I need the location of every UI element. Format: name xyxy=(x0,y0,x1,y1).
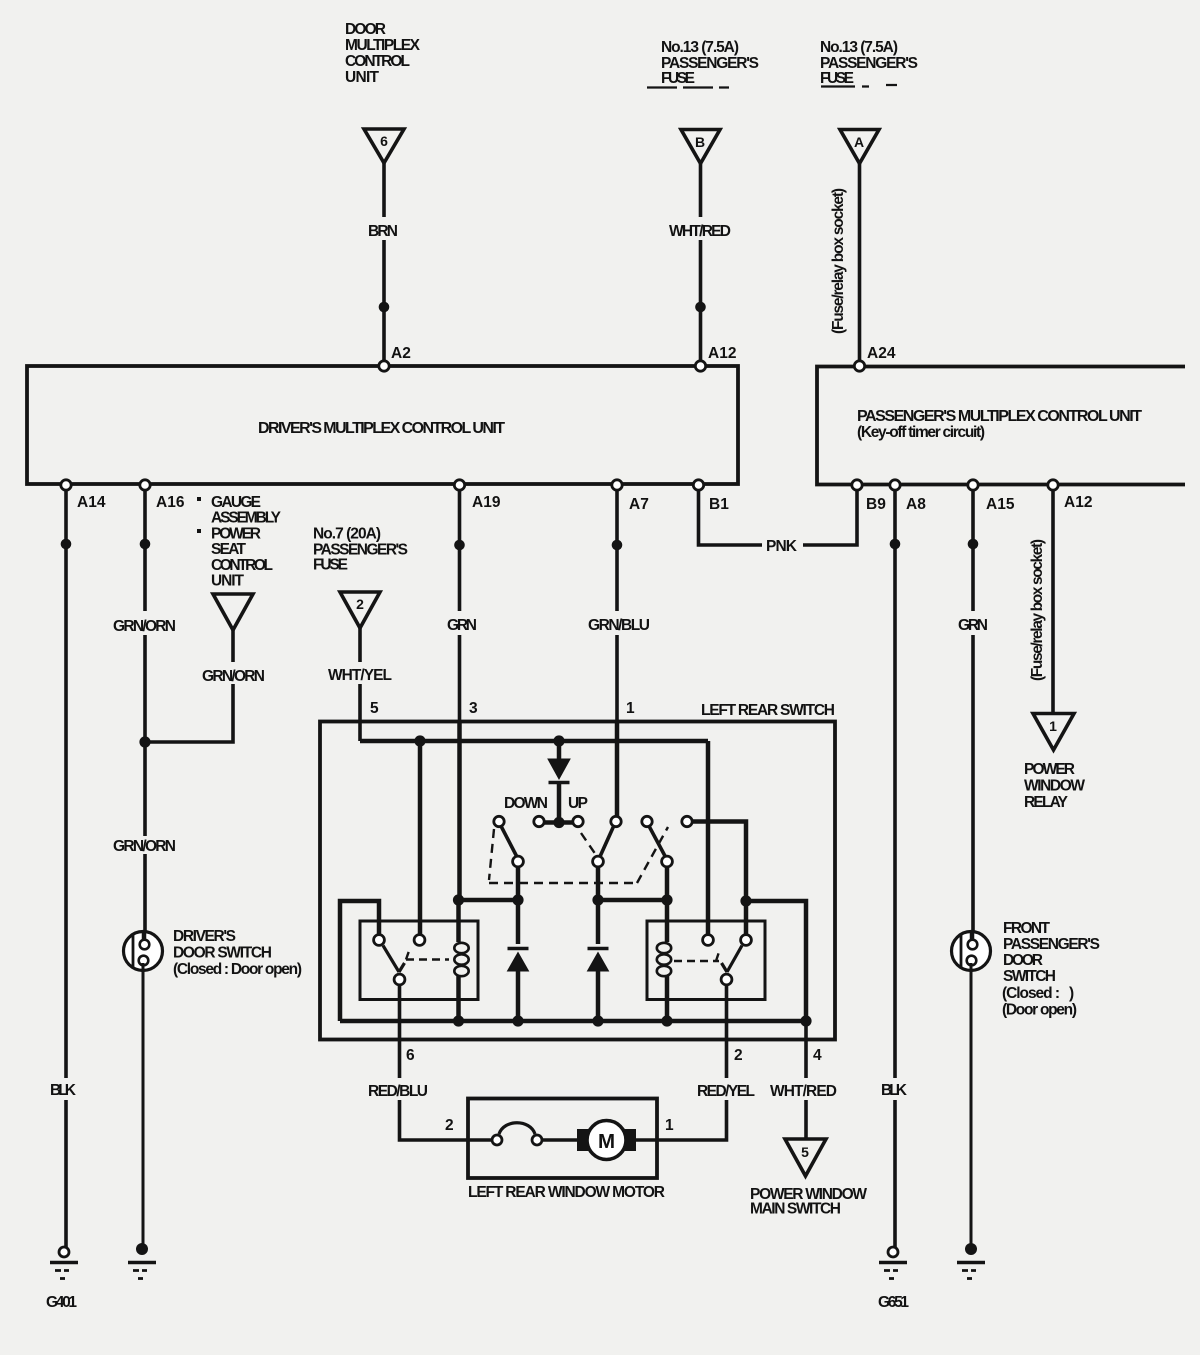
pin A15 xyxy=(968,480,978,490)
svg-text:BRN: BRN xyxy=(368,223,398,240)
label: No.7 (20A) PASSENGER'S FUSE xyxy=(313,526,408,574)
svg-text:PASSENGER'S MULTIPLEX CONTROL: PASSENGER'S MULTIPLEX CONTROL UNIT xyxy=(857,408,1142,425)
wire motor to box edge xyxy=(636,1138,657,1142)
connector triangle A (No.13 fuse) xyxy=(840,130,879,164)
wire pivot middle to mid-bus xyxy=(596,867,601,900)
svg-text:CONTROL: CONTROL xyxy=(211,557,273,574)
connector triangle 2 (No.7 fuse) xyxy=(340,592,380,628)
relay K2 pivot xyxy=(721,974,732,985)
top bus inside switch xyxy=(360,739,708,744)
svg-text:GAUGE: GAUGE xyxy=(211,494,261,511)
svg-text:CONTROL: CONTROL xyxy=(345,53,410,70)
wire pivot left to mid-bus xyxy=(516,867,521,900)
svg-text:1: 1 xyxy=(665,1117,674,1134)
svg-text:2: 2 xyxy=(734,1047,743,1064)
svg-text:GRN/ORN: GRN/ORN xyxy=(113,838,176,855)
wire GRN continues inside box to mid-bus xyxy=(457,723,462,900)
svg-text:M: M xyxy=(598,1130,615,1153)
switch arm middle xyxy=(600,827,614,857)
pin A14 xyxy=(61,480,71,490)
relay K2 box (right) xyxy=(647,921,765,1000)
svg-text:A8: A8 xyxy=(906,496,926,513)
wire pin 4 to power window main switch xyxy=(804,1021,808,1078)
label POWER WINDOW MAIN SWITCH xyxy=(750,1186,867,1218)
relay K1 link dashed xyxy=(406,951,449,960)
wire left relay feed L-path xyxy=(340,901,379,1021)
motor M1 xyxy=(577,1129,590,1151)
switch arm right xyxy=(650,827,666,856)
relay K1 contact circles xyxy=(374,935,385,946)
connector triangle B (No.13 fuse) xyxy=(681,130,720,164)
label: DOOR MULTIPLEX CONTROL UNIT xyxy=(345,21,421,86)
label DRIVER'S DOOR SWITCH xyxy=(173,928,302,978)
bottom bus inside switch xyxy=(340,1019,806,1024)
svg-text:No.7 (20A): No.7 (20A) xyxy=(313,526,381,543)
wire from top bus down to right relay contact xyxy=(706,741,711,935)
relay K2 contact circles xyxy=(703,935,714,946)
svg-text:A14: A14 xyxy=(77,494,106,511)
switch arm left xyxy=(502,827,517,856)
svg-text:A12: A12 xyxy=(1064,494,1092,511)
connector triangle 5 (power window main switch) xyxy=(785,1139,826,1176)
connector triangle 6 (door multiplex control unit) xyxy=(364,129,404,163)
svg-text:(Door open): (Door open) xyxy=(1002,1002,1077,1019)
motor circuit breaker xyxy=(468,1138,492,1142)
wire GRN/ORN from A16 to driver's door switch xyxy=(143,490,147,611)
junction on WHT/RED wire xyxy=(695,302,706,313)
junction on BRN wire xyxy=(379,302,390,313)
relay K2 coil xyxy=(665,900,670,942)
relay K1 coil xyxy=(456,900,461,942)
relay K2 arm xyxy=(722,946,743,973)
svg-text:G401: G401 xyxy=(46,1294,77,1311)
wire WHT/YEL to left rear switch pin 5 xyxy=(358,628,362,662)
label: No.13 (7.5A) PASSENGER'S FUSE (right) xyxy=(820,39,918,87)
svg-text:A24: A24 xyxy=(867,345,896,362)
junctions on mid buses xyxy=(453,894,464,905)
svg-text:DOOR: DOOR xyxy=(345,21,386,38)
wire GRN/ORN branch to A16 wire xyxy=(231,630,235,662)
svg-text:RED/YEL: RED/YEL xyxy=(697,1083,755,1100)
junction on A16 wire xyxy=(140,539,151,550)
ground G651 xyxy=(888,1247,898,1257)
wire BLK from A8 to G651 xyxy=(893,490,897,1078)
pivot circle left xyxy=(513,856,524,867)
svg-text:GRN: GRN xyxy=(958,617,988,634)
svg-text:B: B xyxy=(695,134,705,150)
mid bus right segment xyxy=(598,898,668,903)
svg-text:MAIN SWITCH: MAIN SWITCH xyxy=(750,1201,841,1218)
rocker linkage (dashed) xyxy=(489,827,668,883)
junction on A14 wire xyxy=(61,539,72,550)
svg-text:GRN/ORN: GRN/ORN xyxy=(202,668,265,685)
svg-text:UNIT: UNIT xyxy=(345,69,380,86)
front passenger's door switch xyxy=(952,932,991,971)
svg-text:FUSE: FUSE xyxy=(820,70,854,87)
svg-text:DOWN: DOWN xyxy=(504,795,548,812)
label: No.13 (7.5A) PASSENGER'S FUSE (left) xyxy=(661,39,759,87)
svg-text:UP: UP xyxy=(568,795,588,812)
svg-text:RELAY: RELAY xyxy=(1024,794,1069,811)
svg-text:A15: A15 xyxy=(986,496,1015,513)
junction on A19 wire xyxy=(454,540,465,551)
svg-text:MULTIPLEX: MULTIPLEX xyxy=(345,37,421,54)
relay K1 arm xyxy=(383,946,405,973)
svg-text:DRIVER'S: DRIVER'S xyxy=(173,928,236,945)
wire RED/YEL to motor xyxy=(657,1100,727,1140)
junction top bus at x559 xyxy=(553,735,564,746)
wire from top bus down to left relay contact xyxy=(418,741,423,935)
svg-text:GRN/ORN: GRN/ORN xyxy=(113,618,176,635)
junction on A8 wire xyxy=(890,539,901,550)
junction GRN/ORN branch xyxy=(139,736,150,747)
wire RED/BLU to motor xyxy=(400,1100,469,1140)
diode D1 (center, cathode down) xyxy=(557,741,562,759)
svg-text:3: 3 xyxy=(469,700,478,717)
svg-text:PASSENGER'S: PASSENGER'S xyxy=(1003,936,1100,953)
pin A24 xyxy=(854,361,864,371)
svg-text:2: 2 xyxy=(356,596,364,612)
pin A19 xyxy=(454,480,464,490)
svg-text:A2: A2 xyxy=(391,345,411,362)
driver's door switch xyxy=(124,932,163,971)
svg-text:(Closed : Door open): (Closed : Door open) xyxy=(173,961,302,978)
pin B9 xyxy=(852,480,862,490)
svg-text:A12: A12 xyxy=(708,345,736,362)
label: GAUGE ASSEMBLY / POWER SEAT CONTROL UNIT xyxy=(197,494,282,590)
svg-text:BLK: BLK xyxy=(881,1082,908,1099)
svg-text:LEFT REAR WINDOW MOTOR: LEFT REAR WINDOW MOTOR xyxy=(468,1184,665,1201)
svg-text:BLK: BLK xyxy=(50,1082,77,1099)
svg-text:A: A xyxy=(854,134,864,150)
junction top bus at x420 xyxy=(414,735,425,746)
pivot circle middle xyxy=(593,856,604,867)
svg-text:GRN/BLU: GRN/BLU xyxy=(588,617,650,634)
wire PNK B1 to B9 xyxy=(699,490,763,545)
svg-text:PNK: PNK xyxy=(766,538,798,555)
relay K2 output wire (pin 2) xyxy=(725,985,729,1078)
pin A7 xyxy=(612,480,622,490)
svg-text:6: 6 xyxy=(406,1047,415,1064)
junction on A7 wire xyxy=(612,540,623,551)
wire (Fuse/relay box socket) from triangle A to A24 xyxy=(858,164,862,362)
pin B1 xyxy=(693,480,703,490)
svg-text:2: 2 xyxy=(445,1117,454,1134)
label FRONT PASSENGER'S DOOR SWITCH xyxy=(1002,920,1100,1019)
wire GRN/BLU inside box to contact xyxy=(615,723,620,816)
svg-text:POWER: POWER xyxy=(1024,761,1075,778)
svg-text:(Key-off timer circuit): (Key-off timer circuit) xyxy=(857,424,985,441)
svg-text:RED/BLU: RED/BLU xyxy=(368,1083,428,1100)
underline artifact below FUSE (right) xyxy=(821,85,897,87)
svg-text:WHT/RED: WHT/RED xyxy=(770,1083,837,1100)
svg-text:A7: A7 xyxy=(629,496,649,513)
svg-text:WHT/YEL: WHT/YEL xyxy=(328,667,392,684)
left rear switch box xyxy=(320,722,835,1040)
wire A12 to power window relay xyxy=(1051,490,1055,713)
svg-text:POWER: POWER xyxy=(211,525,261,542)
junctions on bottom bus xyxy=(453,1015,464,1026)
svg-text:DOOR SWITCH: DOOR SWITCH xyxy=(173,945,272,962)
svg-text:A16: A16 xyxy=(156,494,185,511)
svg-text:ASSEMBLY: ASSEMBLY xyxy=(211,510,282,527)
svg-text:GRN: GRN xyxy=(447,617,477,634)
svg-text:No.13 (7.5A): No.13 (7.5A) xyxy=(661,39,739,56)
pivot circle right xyxy=(662,856,673,867)
junction on A15 wire xyxy=(968,539,979,550)
relay K2 link dashed xyxy=(674,952,719,961)
svg-text:WINDOW: WINDOW xyxy=(1024,778,1085,795)
svg-text:(Fuse/relay box socket): (Fuse/relay box socket) xyxy=(830,188,847,334)
svg-text:1: 1 xyxy=(626,700,635,717)
driver's multiplex control unit box xyxy=(27,366,738,484)
svg-text:B9: B9 xyxy=(866,496,886,513)
connector triangle (gauge assembly / power seat control unit) xyxy=(213,594,253,630)
svg-text:): ) xyxy=(1069,985,1074,1002)
svg-text:LEFT REAR SWITCH: LEFT REAR SWITCH xyxy=(701,702,835,719)
ground (passenger's door switch) xyxy=(965,1243,977,1255)
mid bus left segment xyxy=(458,898,518,903)
pin A16 xyxy=(140,480,150,490)
wire GRN/BLU from A7 to left rear switch pin 1 xyxy=(615,490,619,611)
svg-text:FUSE: FUSE xyxy=(661,70,695,87)
passenger's multiplex control unit box xyxy=(817,367,1185,485)
relay K1 output wire (pin 6) xyxy=(398,985,402,1078)
wire right contact to relay (with branch to pin 4) xyxy=(693,822,747,936)
wire BRN from triangle 6 to A2 xyxy=(382,163,386,217)
svg-text:A19: A19 xyxy=(472,494,501,511)
svg-text:6: 6 xyxy=(380,133,388,149)
svg-text:UNIT: UNIT xyxy=(211,573,245,590)
wire pivot right to mid-bus xyxy=(665,867,670,900)
wire GRN from A15 to front passenger's door switch xyxy=(971,490,975,611)
underline artifact below FUSE (left) xyxy=(647,86,729,88)
svg-text:(Fuse/relay box socket): (Fuse/relay box socket) xyxy=(1029,539,1046,681)
svg-text:SEAT: SEAT xyxy=(211,541,247,558)
wire GRN from A19 to left rear switch pin 3 xyxy=(458,490,462,611)
diode D3 (right, cathode up) xyxy=(596,900,601,944)
connector triangle 1 (power window relay) xyxy=(1033,714,1074,751)
svg-text:B1: B1 xyxy=(709,496,729,513)
svg-text:G651: G651 xyxy=(878,1294,909,1311)
switch contact circles row xyxy=(494,816,504,826)
svg-text:DRIVER'S MULTIPLEX CONTROL UNI: DRIVER'S MULTIPLEX CONTROL UNIT xyxy=(258,420,505,437)
svg-text:5: 5 xyxy=(370,700,379,717)
svg-text:No.13 (7.5A): No.13 (7.5A) xyxy=(820,39,898,56)
ground (driver's door switch) xyxy=(136,1243,148,1255)
svg-text:FRONT: FRONT xyxy=(1003,920,1051,937)
svg-text:(Closed :: (Closed : xyxy=(1002,985,1060,1002)
pin A8 xyxy=(890,480,900,490)
left rear window motor box xyxy=(468,1099,657,1179)
relay K1 pivot xyxy=(394,974,405,985)
wire pin5 into box to top bus xyxy=(358,723,362,741)
label POWER WINDOW RELAY xyxy=(1024,761,1085,811)
svg-text:5: 5 xyxy=(801,1144,809,1160)
svg-text:SWITCH: SWITCH xyxy=(1003,968,1056,985)
pin A12 (bottom right) xyxy=(1048,480,1058,490)
svg-text:1: 1 xyxy=(1049,718,1057,734)
rocker common node xyxy=(544,820,574,825)
wire WHT/RED from triangle B to A12 xyxy=(699,164,703,218)
ground G401 xyxy=(59,1247,69,1257)
diode D2 (left, cathode up) xyxy=(516,900,521,944)
wire BLK from A14 to G401 xyxy=(64,490,68,1078)
wire breaker to motor xyxy=(542,1138,577,1142)
relay K1 box (left) xyxy=(360,921,478,1000)
svg-text:4: 4 xyxy=(813,1047,822,1064)
svg-text:DOOR: DOOR xyxy=(1003,952,1043,969)
svg-text:FUSE: FUSE xyxy=(313,557,348,574)
pin A12 (top) xyxy=(695,361,705,371)
svg-text:WHT/RED: WHT/RED xyxy=(669,223,731,240)
pin A2 xyxy=(379,361,389,371)
